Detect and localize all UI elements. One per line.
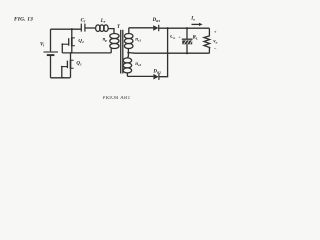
- diode DR1: [153, 25, 159, 31]
- wire: top rail from battery + to C_r: [51, 28, 82, 30]
- svg-text:−: −: [214, 46, 217, 51]
- node: junction dot Co top on + rail: [186, 27, 188, 29]
- wire: mid rail (half-bridge midpoint to primary bottom): [62, 52, 111, 54]
- wire: Cr to Lr: [85, 27, 96, 29]
- Q2 drain lead: [71, 29, 73, 37]
- Co top lead: [186, 28, 188, 39]
- wire: ns1 bottom lead to centre tap: [127, 49, 129, 53]
- Q2 gate bar: [68, 38, 70, 46]
- wire: battery + lead: [50, 29, 52, 51]
- winding ns1 (secondary top, 3 loops): [124, 28, 133, 53]
- wire: centre tap return rail: [128, 52, 209, 55]
- capacitor Co (polarised, hatched plate): [182, 28, 193, 53]
- wire: np bottom lead to mid rail: [110, 48, 112, 53]
- wire: battery - lead down to bottom rail: [50, 56, 52, 78]
- svg-text:PRIOR ART: PRIOR ART: [103, 96, 131, 101]
- Q1 gate lead: [62, 66, 68, 68]
- transformer T core: [121, 30, 123, 74]
- svg-text:ns2: ns2: [135, 62, 141, 67]
- wire: ns2 bottom lead: [126, 73, 128, 77]
- Q2 channel bar: [71, 37, 73, 46]
- svg-text:np: np: [103, 37, 108, 42]
- wire: DR2 cathode riser up to + rail: [159, 28, 168, 76]
- Q1 source lead: [70, 69, 72, 78]
- svg-text:RL: RL: [193, 35, 198, 40]
- Q2 gate lead: [62, 43, 68, 45]
- node: Q2 gate stub dot: [61, 43, 63, 45]
- svg-text:Q1: Q1: [76, 62, 82, 67]
- svg-text:Io: Io: [190, 16, 195, 21]
- svg-text:ns1: ns1: [135, 37, 141, 42]
- svg-text:Co: Co: [170, 35, 175, 40]
- Q2 source lead: [71, 46, 73, 53]
- wire: ns2 top lead from centre tap: [126, 53, 129, 58]
- node: Q1 gate stub dot: [61, 66, 63, 68]
- Co hatched bottom plate: [182, 40, 192, 44]
- node: mid rail junction dot: [70, 52, 72, 54]
- Q1 drain lead: [70, 53, 72, 60]
- node: junction dot DR2 riser on + rail: [167, 27, 169, 29]
- inductor Lr (3 loops): [96, 25, 109, 32]
- Co bottom lead: [186, 44, 188, 53]
- diode DR2: [153, 74, 159, 80]
- capacitor Cr: [81, 24, 85, 32]
- Q2 gate line down to mid rail: [61, 44, 63, 53]
- svg-text:Vi: Vi: [40, 43, 44, 48]
- Q1 contact stubs: [71, 60, 74, 68]
- svg-text:Lr: Lr: [100, 19, 106, 24]
- wire: ns1 top lead: [128, 28, 130, 34]
- svg-text:Cr: Cr: [81, 19, 86, 24]
- wire: Lr to transformer primary top: [108, 29, 114, 34]
- transistor Q2 (upper MOSFET): [62, 29, 75, 53]
- svg-text:DR1: DR1: [152, 18, 161, 23]
- svg-text:T: T: [117, 25, 121, 30]
- wire: DR1 cathode to output + rail: [159, 27, 210, 29]
- arrow Io (output current): [192, 23, 203, 26]
- wire: ns2 bottom to DR2 anode: [127, 75, 153, 77]
- Q1 gate bar: [66, 61, 68, 69]
- resistor RL (zigzag): [204, 28, 210, 53]
- svg-text:DR2: DR2: [152, 70, 161, 75]
- svg-text:+: +: [179, 36, 181, 40]
- svg-text:Q2: Q2: [78, 39, 84, 44]
- winding np (primary, 3 loops): [110, 34, 119, 53]
- node: junction dot Co bottom: [186, 52, 188, 54]
- Q2 contact stubs: [72, 38, 75, 46]
- transistor Q1 (lower MOSFET): [62, 53, 74, 78]
- wire: ns1 top to DR1 anode: [129, 27, 153, 29]
- Q1 channel bar: [70, 60, 72, 69]
- wire: bottom rail to Q1 source: [51, 77, 71, 79]
- svg-text:vo: vo: [213, 40, 217, 45]
- svg-text:+: +: [214, 29, 217, 34]
- node: junction dot top rail / Q2 drain: [71, 28, 73, 30]
- Co top plate: [182, 38, 193, 40]
- Q1 gate line down to bottom rail: [62, 67, 64, 78]
- node: centre tap junction dot: [127, 52, 129, 54]
- svg-text:FIG. 13: FIG. 13: [14, 17, 33, 23]
- winding ns2 (secondary bottom, 3 loops): [123, 53, 132, 77]
- battery V1 source Vi: [44, 52, 59, 55]
